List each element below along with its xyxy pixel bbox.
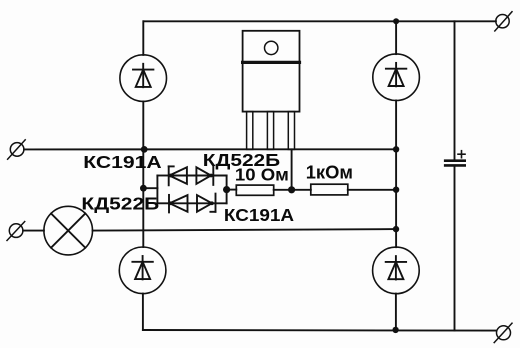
svg-text:КС191А: КС191А (224, 206, 294, 225)
diode VD1 (top-left bridge arm) (120, 55, 167, 102)
node dot VD6 apex (209, 174, 213, 178)
junction dot R2 / right vertical (393, 187, 399, 193)
wire right vertical lower (395, 294, 397, 331)
diode VD6 КД522Б triangle (196, 167, 211, 184)
label КС191А (upper left) (83, 154, 162, 173)
wire through bottom row (169, 202, 227, 204)
label КД522Б (lower left) (81, 195, 159, 214)
label 1кОм value of R2 (306, 163, 353, 183)
junction dot block feed / left vertical (140, 185, 147, 192)
zener VD5 triangle (169, 167, 187, 184)
capacitor C1 bottom lead (454, 165, 456, 330)
svg-text:1кОм: 1кОм (306, 163, 353, 183)
wire block right vertical (226, 176, 228, 204)
wire left vertical lower (142, 294, 144, 330)
svg-text:10 Ом: 10 Ом (235, 165, 289, 184)
node dot VD8 apex (210, 201, 214, 205)
wire through top row (169, 175, 227, 177)
wire right vertical middle (395, 100, 397, 247)
junction dot middle wire / right vertical (393, 146, 399, 152)
capacitor C1 plates (445, 161, 465, 166)
wire terminal to lamp (23, 230, 44, 232)
wire stub to top row (157, 175, 168, 177)
transistor leg 3 (288, 112, 294, 150)
label 10 Ом value of R1 (235, 165, 289, 184)
wire top bus (144, 20, 496, 22)
zener VD8 КС191А triangle (197, 195, 212, 212)
junction dot lamp wire / right vertical (393, 226, 399, 232)
wire block left vertical (156, 176, 158, 204)
junction dot middle wire / left vertical (141, 146, 148, 153)
junction dot top bus / right vertical (393, 18, 399, 24)
svg-text:КД522Б: КД522Б (81, 195, 159, 214)
transistor leg 2 (267, 112, 273, 150)
terminal XT4 left-lower (7, 222, 25, 241)
wire left vertical upper (142, 21, 144, 55)
junction dot base node between R1 R2 (288, 186, 295, 193)
wire left vertical middle (142, 101, 144, 247)
zener VD8 cathode bar with hook (210, 194, 215, 212)
zener VD5 КС191А cathode bar with hook (169, 166, 174, 185)
transistor leg 1 (247, 112, 253, 150)
terminal XT1 top-right (495, 12, 512, 31)
terminal XT3 left-middle (8, 140, 26, 159)
diode VD4 (bottom-right bridge arm) (373, 247, 420, 294)
label КД522Б (upper) (203, 151, 281, 170)
label КС191А (lower) (224, 206, 294, 225)
diode VD6 cathode bar (212, 167, 214, 185)
diode VD2 (top-right bridge arm) (373, 54, 420, 101)
junction dot bottom bus / right vertical (392, 327, 398, 333)
diode VD3 (bottom-left bridge arm) (119, 247, 166, 294)
wire leg3 down to resistor node (291, 149, 293, 189)
wire block feed from left bus (143, 187, 157, 189)
wire R2 to right bus (348, 189, 396, 191)
wire stub to bottom row (157, 202, 169, 204)
wire middle horizontal (terminal to right bus) (24, 148, 396, 150)
wire block output to R1 (227, 189, 237, 191)
terminal XT2 bottom-right (494, 323, 512, 342)
wire lamp to right bus (93, 229, 396, 231)
resistor R2 1кОм (311, 184, 348, 195)
diode VD7 triangle (170, 195, 188, 212)
diode VD7 КД522Б cathode bar (168, 195, 170, 213)
transistor VT1 package (TO-220) (243, 31, 300, 112)
wire right vertical upper (395, 21, 397, 54)
node dot VD5 apex (169, 174, 173, 178)
junction dot block output (223, 186, 230, 193)
lamp HL1 (44, 206, 93, 255)
svg-text:КС191А: КС191А (83, 154, 162, 173)
wire R1 to R2 (274, 189, 311, 191)
node dot VD7 apex (168, 201, 172, 205)
wire bottom bus (143, 329, 496, 332)
resistor R1 10 Ом (236, 185, 273, 195)
capacitor C1 top lead (454, 21, 456, 160)
capacitor C1 plus sign (458, 151, 465, 158)
